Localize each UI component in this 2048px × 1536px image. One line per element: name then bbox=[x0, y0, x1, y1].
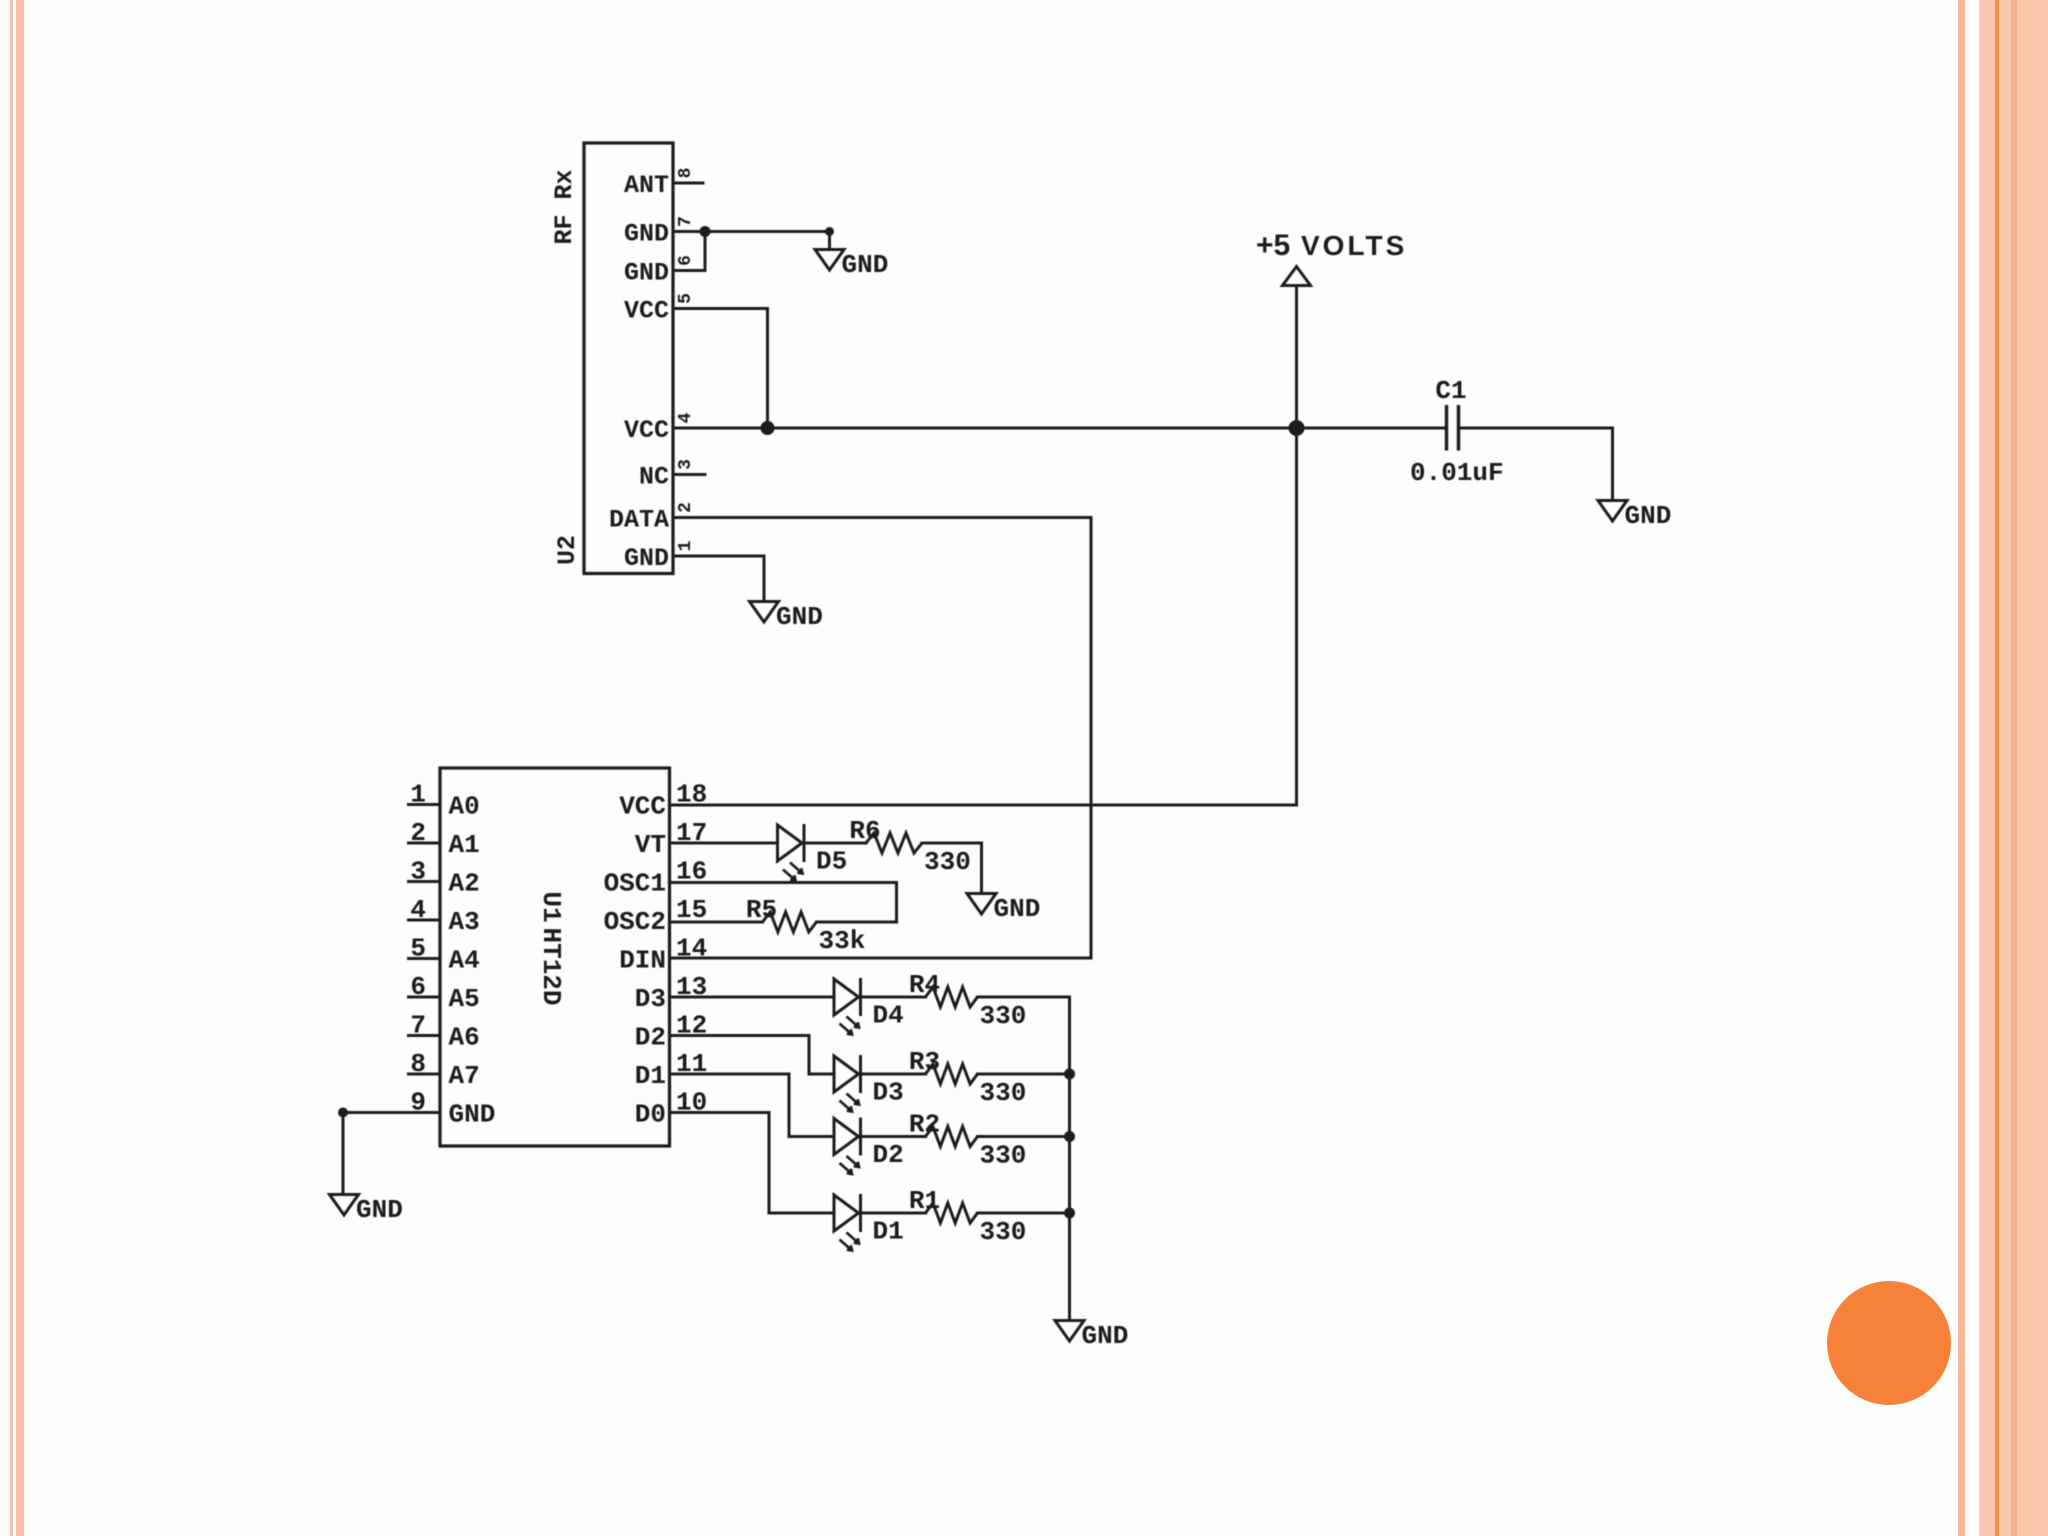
svg-text:7: 7 bbox=[676, 216, 696, 227]
wire U2 pin2 DATA to U1 DIN bbox=[670, 518, 1091, 959]
+5 VOLTS power symbol bbox=[1256, 229, 1407, 286]
U1 pin 7 lead bbox=[407, 1034, 440, 1037]
svg-text:U1: U1 bbox=[536, 891, 566, 922]
wire U2 pin5 VCC down to pin4 net bbox=[673, 309, 768, 429]
wire +5V rail down to U1 VCC pin18 bbox=[670, 428, 1297, 805]
svg-text:4: 4 bbox=[410, 895, 426, 925]
left border thick stripe bbox=[16, 0, 24, 1536]
svg-text:330: 330 bbox=[980, 1001, 1027, 1031]
svg-text:DIN: DIN bbox=[619, 946, 666, 976]
wire LED D3 to R3 bbox=[861, 1073, 926, 1076]
svg-text:GND: GND bbox=[624, 544, 669, 573]
LED D4 bbox=[834, 978, 904, 1035]
svg-text:HT12D: HT12D bbox=[536, 927, 566, 1005]
svg-text:0.01uF: 0.01uF bbox=[1410, 458, 1504, 488]
svg-text:VCC: VCC bbox=[619, 792, 666, 822]
wire U2 pin7 GND to ground bbox=[673, 230, 830, 233]
wire LED D2 to R2 bbox=[861, 1135, 926, 1138]
svg-text:VCC: VCC bbox=[624, 297, 669, 326]
svg-text:1: 1 bbox=[676, 540, 696, 551]
wire +5V rail down to VCC net bbox=[1295, 286, 1298, 429]
svg-text:A0: A0 bbox=[449, 792, 480, 822]
svg-text:A2: A2 bbox=[449, 869, 480, 899]
wire U2 pin3 NC stub bbox=[673, 473, 705, 476]
svg-text:D3: D3 bbox=[635, 984, 666, 1014]
junction +5V / VCC / C1 bbox=[1289, 420, 1305, 436]
resistor R5 bbox=[746, 895, 865, 956]
wire U2 pin6 GND up to pin7 net bbox=[673, 232, 705, 271]
svg-text:OSC2: OSC2 bbox=[604, 907, 666, 937]
decorative orange circle bbox=[1827, 1281, 1951, 1405]
svg-text:6: 6 bbox=[410, 972, 426, 1002]
U1 pin 2 lead bbox=[407, 842, 440, 845]
right border thin stripe bbox=[1958, 0, 1965, 1536]
U1 pin 5 lead bbox=[407, 957, 440, 960]
svg-text:7: 7 bbox=[410, 1011, 426, 1041]
svg-text:NC: NC bbox=[639, 463, 669, 492]
svg-text:RF Rx: RF Rx bbox=[550, 169, 579, 244]
junction pin5-pin4 VCC bbox=[761, 421, 775, 435]
resistor R2 bbox=[909, 1110, 1026, 1171]
svg-text:4: 4 bbox=[676, 412, 696, 423]
ground symbol at U1 pin9 bbox=[330, 1195, 403, 1226]
RF receiver module U2 box bbox=[584, 143, 673, 574]
wire U1 pin9 GND to ground bbox=[343, 1111, 440, 1114]
junction pins 6-7 bbox=[700, 226, 711, 237]
svg-text:330: 330 bbox=[980, 1141, 1027, 1171]
wire R1 to cathode bus bbox=[978, 1212, 1070, 1215]
svg-text:VT: VT bbox=[635, 830, 666, 860]
wire U1 pin10 to LED D1 bbox=[670, 1113, 835, 1214]
svg-text:A5: A5 bbox=[449, 984, 480, 1014]
svg-text:3: 3 bbox=[676, 459, 696, 470]
svg-text:D1: D1 bbox=[635, 1061, 666, 1091]
wire LED cathode bus down to ground bbox=[1068, 997, 1071, 1321]
wire U2 pin8 ANT stub bbox=[673, 182, 703, 185]
wire U1 pin16 OSC1 bbox=[670, 883, 897, 923]
ground symbol at R6 bbox=[967, 894, 1040, 925]
wire U2 pin1 GND to ground bbox=[673, 556, 764, 602]
LED D1 bbox=[834, 1194, 904, 1251]
svg-text:D2: D2 bbox=[873, 1140, 904, 1170]
U1 pin 6 lead bbox=[407, 996, 440, 999]
svg-text:D5: D5 bbox=[816, 847, 847, 877]
wire U1 pin12 to LED D3 bbox=[670, 1036, 835, 1075]
svg-text:DATA: DATA bbox=[609, 506, 669, 535]
junction at ground stub bbox=[825, 227, 834, 236]
svg-text:A1: A1 bbox=[449, 830, 480, 860]
junction bus / R1 bbox=[1064, 1208, 1075, 1219]
svg-text:GND: GND bbox=[449, 1100, 496, 1130]
svg-text:D3: D3 bbox=[873, 1078, 904, 1108]
ground symbol at C1 bbox=[1598, 501, 1671, 532]
LED D5 bbox=[778, 824, 848, 881]
resistor R6 bbox=[849, 816, 970, 877]
wire U2 pin4 VCC to capacitor C1 bbox=[673, 427, 1446, 430]
svg-text:D2: D2 bbox=[635, 1023, 666, 1053]
svg-text:U2: U2 bbox=[553, 535, 582, 565]
U1 pin 1 lead bbox=[407, 803, 440, 806]
svg-text:GND: GND bbox=[624, 259, 669, 288]
LED D3 bbox=[834, 1055, 904, 1112]
junction bus / R2 bbox=[1064, 1131, 1075, 1142]
wire LED D1 to R1 bbox=[861, 1212, 926, 1215]
svg-text:8: 8 bbox=[410, 1049, 426, 1079]
resistor R1 bbox=[909, 1186, 1026, 1247]
wire R6 to ground bbox=[922, 843, 982, 894]
svg-text:330: 330 bbox=[980, 1078, 1027, 1108]
wire LED D4 to R4 bbox=[861, 996, 926, 999]
svg-text:GND: GND bbox=[776, 602, 823, 632]
U1 pin 8 lead bbox=[407, 1073, 440, 1076]
wire U1 pin13 to LED D4 bbox=[670, 996, 835, 999]
wire U1 pin15 OSC2 to R5 bbox=[670, 921, 763, 924]
svg-text:D4: D4 bbox=[873, 1001, 904, 1031]
svg-text:5: 5 bbox=[676, 293, 696, 304]
wire U1 pin9 ground drop bbox=[342, 1113, 345, 1195]
svg-text:18: 18 bbox=[676, 780, 707, 810]
svg-text:2: 2 bbox=[410, 818, 426, 848]
wire U1 pin17 VT to LED D5 bbox=[670, 842, 778, 845]
LED D2 bbox=[834, 1118, 904, 1175]
svg-text:D1: D1 bbox=[873, 1217, 904, 1247]
svg-text:GND: GND bbox=[356, 1195, 403, 1225]
svg-text:D0: D0 bbox=[635, 1100, 666, 1130]
svg-text:A7: A7 bbox=[449, 1061, 480, 1091]
ground symbol at U2 pins 6-7 bbox=[815, 250, 888, 281]
U1 pin 3 lead bbox=[407, 880, 440, 883]
junction at U1 pin9 wire corner bbox=[338, 1108, 348, 1118]
wire ground stub bbox=[828, 232, 831, 250]
wire R5 to OSC1 loop bbox=[817, 921, 897, 924]
svg-text:1: 1 bbox=[410, 780, 426, 810]
svg-text:OSC1: OSC1 bbox=[604, 869, 666, 899]
ground symbol at LED bus bbox=[1055, 1321, 1128, 1352]
svg-text:GND: GND bbox=[994, 894, 1041, 924]
svg-text:5: 5 bbox=[410, 934, 426, 964]
wire R3 to cathode bus bbox=[978, 1073, 1070, 1076]
svg-text:GND: GND bbox=[1082, 1321, 1129, 1351]
svg-text:330: 330 bbox=[980, 1217, 1027, 1247]
svg-text:GND: GND bbox=[842, 250, 889, 280]
right border inner darker stripe bbox=[2011, 0, 2017, 1536]
svg-text:R6: R6 bbox=[849, 816, 880, 846]
svg-text:3: 3 bbox=[410, 857, 426, 887]
svg-text:2: 2 bbox=[676, 502, 696, 513]
svg-text:6: 6 bbox=[676, 255, 696, 266]
svg-text:A3: A3 bbox=[449, 907, 480, 937]
svg-text:ANT: ANT bbox=[624, 171, 669, 200]
svg-text:C1: C1 bbox=[1435, 376, 1466, 406]
svg-text:R1: R1 bbox=[909, 1186, 940, 1216]
resistor R4 bbox=[909, 970, 1026, 1031]
wire C1 to ground bbox=[1459, 428, 1613, 501]
ground symbol at U2 pin1 bbox=[750, 602, 823, 633]
junction bus / R3 bbox=[1064, 1069, 1075, 1080]
svg-text:33k: 33k bbox=[819, 926, 866, 956]
wire U1 pin11 to LED D2 bbox=[670, 1074, 835, 1137]
svg-text:GND: GND bbox=[1625, 501, 1672, 531]
svg-text:A4: A4 bbox=[449, 946, 480, 976]
svg-text:R2: R2 bbox=[909, 1110, 940, 1140]
left border thin stripe bbox=[10, 0, 13, 1536]
svg-text:R5: R5 bbox=[746, 895, 777, 925]
decoder IC U1 box bbox=[440, 768, 670, 1146]
wire R4 to cathode bus bbox=[978, 996, 1070, 999]
U1 pin 4 lead bbox=[407, 919, 440, 922]
svg-text:GND: GND bbox=[624, 220, 669, 249]
wire LED D5 to R6 bbox=[804, 842, 866, 845]
svg-text:330: 330 bbox=[924, 847, 971, 877]
svg-text:14: 14 bbox=[676, 934, 707, 964]
svg-text:A6: A6 bbox=[449, 1023, 480, 1053]
wire R2 to cathode bus bbox=[978, 1135, 1070, 1138]
svg-text:R4: R4 bbox=[909, 970, 940, 1000]
svg-text:R3: R3 bbox=[909, 1047, 940, 1077]
svg-text:8: 8 bbox=[676, 168, 696, 179]
svg-text:VCC: VCC bbox=[624, 416, 669, 445]
svg-text:+5 VOLTS: +5 VOLTS bbox=[1256, 229, 1407, 262]
right border dark orange line bbox=[1995, 0, 1999, 1536]
right border wide band bbox=[1979, 0, 2048, 1536]
capacitor C1 bbox=[1410, 376, 1504, 488]
resistor R3 bbox=[909, 1047, 1026, 1108]
